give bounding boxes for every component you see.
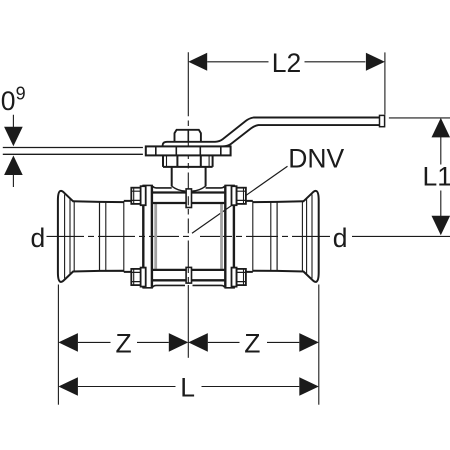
- centerline vertical: [187, 52, 189, 282]
- right socket seam lines: [276, 202, 278, 271]
- stem top tab: [186, 189, 191, 208]
- dimension L2 line: [207, 61, 365, 63]
- dimension L1 up arrow: [432, 118, 450, 137]
- svg-text:L1: L1: [423, 162, 450, 192]
- svg-text:9: 9: [16, 84, 26, 104]
- svg-text:Z: Z: [116, 329, 132, 359]
- bolt bottom-left: [131, 268, 145, 287]
- dimension L line: [78, 386, 299, 388]
- dimension Z right arrows: [188, 333, 208, 352]
- centerline segments inside tabs: [187, 196, 189, 282]
- right socket tube edges: [233, 201, 304, 272]
- lever handle top edge: [163, 118, 380, 147]
- centerline horizontal: [47, 235, 450, 237]
- bolt bottom-right: [232, 268, 246, 287]
- dimension Z right line: [208, 341, 299, 343]
- lever strip closed position: [3, 148, 143, 155]
- right press socket bell: [233, 191, 318, 282]
- extension line right of L2: [384, 52, 386, 114]
- extension line bottom middle: [187, 285, 189, 358]
- extension line top of L1: [389, 117, 450, 119]
- svg-text:0: 0: [1, 86, 16, 116]
- svg-text:d: d: [333, 223, 348, 253]
- leader line DNV: [192, 166, 288, 233]
- left socket rim lines: [65, 194, 124, 278]
- svg-text:DNV: DNV: [288, 143, 344, 173]
- lever handle bottom edge: [223, 125, 380, 146]
- bolt top-right: [232, 186, 246, 205]
- svg-text:L2: L2: [272, 48, 301, 78]
- dimension 09 up arrow: [4, 156, 23, 176]
- svg-text:L: L: [180, 372, 195, 402]
- body gray bore shadows: [156, 204, 222, 269]
- dimension Z left arrows: [58, 333, 78, 352]
- svg-text:d: d: [31, 223, 46, 253]
- lever end cap: [380, 115, 385, 126]
- body shell bottom edge: [153, 285, 225, 287]
- left flange plate: [142, 185, 153, 287]
- left socket seam lines: [99, 202, 101, 271]
- packing gland block: [163, 155, 213, 167]
- handle flange plate: [146, 146, 231, 155]
- left socket shoulder line: [73, 202, 75, 272]
- right socket rim lines: [253, 194, 312, 278]
- body top band: [153, 193, 225, 281]
- dimension L1 shaft: [440, 137, 442, 216]
- right flange plate: [224, 185, 235, 287]
- dimension 09 down arrow: [4, 127, 23, 147]
- hex nut: [175, 130, 201, 143]
- stem neck: [172, 167, 206, 187]
- svg-text:Z: Z: [244, 329, 260, 359]
- body bottom band: [153, 270, 225, 280]
- right socket shoulder line: [301, 202, 303, 272]
- dimension L arrows: [58, 377, 78, 396]
- extension line bottom right: [318, 285, 320, 405]
- nut facet line: [187, 131, 189, 142]
- body shell top edge stubs: [153, 186, 225, 287]
- dimension 09 shafts: [12, 115, 14, 187]
- dimension L1 down arrow: [432, 216, 450, 236]
- body cavity sag curves: [172, 186, 206, 191]
- dimension L2 left arrow: [188, 53, 207, 71]
- dimension L2 right arrow: [366, 53, 385, 71]
- left socket tube edges: [73, 201, 144, 272]
- drain bottom tab: [186, 267, 191, 283]
- left press socket bell: [58, 191, 143, 282]
- bolt top-left: [131, 186, 145, 205]
- extension line bottom left: [57, 285, 59, 405]
- dimension Z left line: [78, 341, 169, 343]
